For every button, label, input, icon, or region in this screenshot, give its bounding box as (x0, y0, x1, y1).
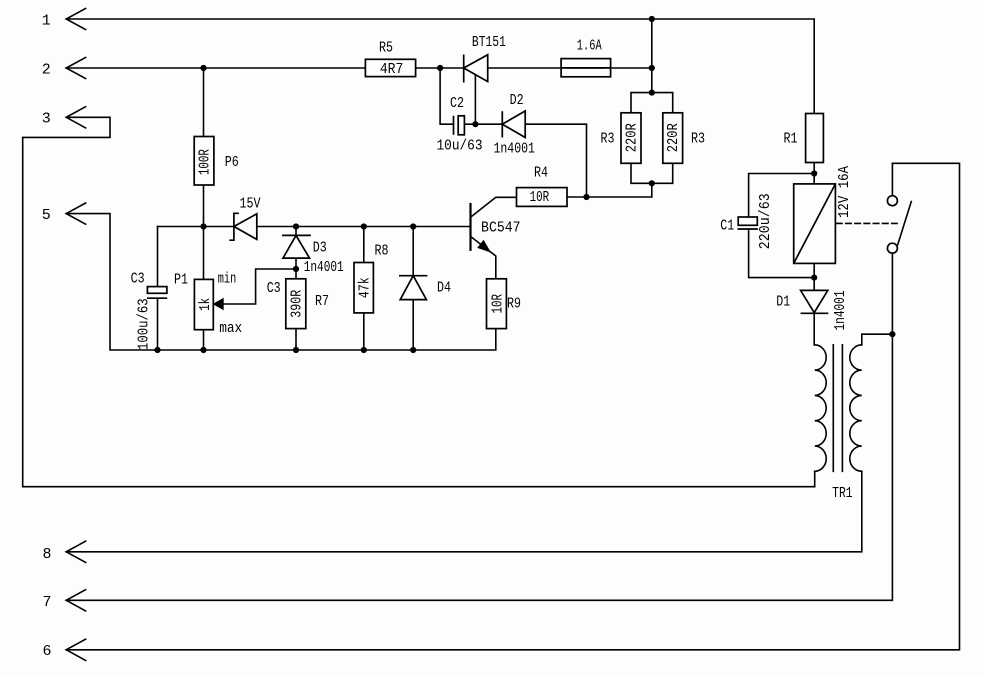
svg-text:220u/63: 220u/63 (757, 193, 774, 249)
svg-text:390R: 390R (289, 290, 306, 318)
svg-text:1: 1 (42, 12, 51, 29)
svg-text:R5: R5 (379, 40, 393, 57)
svg-text:R3: R3 (691, 131, 705, 148)
svg-text:min: min (218, 270, 237, 287)
svg-text:15V: 15V (240, 195, 261, 212)
svg-text:R3: R3 (601, 131, 615, 148)
svg-text:C3: C3 (131, 270, 145, 287)
svg-text:4R7: 4R7 (380, 61, 404, 78)
svg-text:D3: D3 (313, 240, 327, 257)
svg-text:12V 16A: 12V 16A (836, 166, 853, 218)
svg-text:C2: C2 (450, 95, 464, 112)
svg-text:P6: P6 (225, 154, 239, 171)
svg-text:R9: R9 (507, 296, 521, 313)
svg-text:220R: 220R (624, 123, 641, 152)
svg-text:R7: R7 (315, 293, 329, 310)
svg-text:7: 7 (42, 594, 51, 611)
svg-text:10R: 10R (530, 189, 550, 206)
svg-text:C1: C1 (720, 217, 734, 234)
svg-text:C3: C3 (267, 280, 281, 297)
svg-text:10u/63: 10u/63 (437, 138, 483, 155)
svg-text:3: 3 (42, 111, 51, 128)
svg-text:D2: D2 (510, 92, 524, 109)
svg-text:2: 2 (42, 61, 51, 78)
svg-text:TR1: TR1 (832, 485, 853, 502)
svg-text:max: max (219, 320, 242, 337)
svg-text:D1: D1 (776, 294, 790, 311)
svg-text:5: 5 (42, 207, 51, 224)
svg-text:R4: R4 (534, 164, 548, 181)
svg-text:1.6A: 1.6A (577, 38, 602, 55)
svg-text:100u/63: 100u/63 (135, 298, 152, 350)
svg-text:1n4001: 1n4001 (493, 141, 535, 158)
svg-text:8: 8 (42, 546, 51, 563)
svg-text:D4: D4 (437, 280, 451, 297)
svg-text:BT151: BT151 (472, 34, 506, 51)
svg-text:100R: 100R (197, 149, 214, 175)
svg-text:1n4001: 1n4001 (304, 259, 344, 276)
svg-text:220R: 220R (665, 123, 682, 152)
svg-text:BC547: BC547 (481, 219, 521, 236)
svg-text:P1: P1 (174, 272, 188, 289)
svg-text:6: 6 (42, 643, 51, 660)
svg-text:1n4001: 1n4001 (832, 291, 849, 331)
svg-text:47k: 47k (357, 277, 374, 298)
svg-text:10R: 10R (489, 294, 506, 314)
svg-text:1k: 1k (197, 298, 214, 311)
svg-text:R1: R1 (784, 131, 798, 148)
svg-text:R8: R8 (375, 243, 389, 260)
